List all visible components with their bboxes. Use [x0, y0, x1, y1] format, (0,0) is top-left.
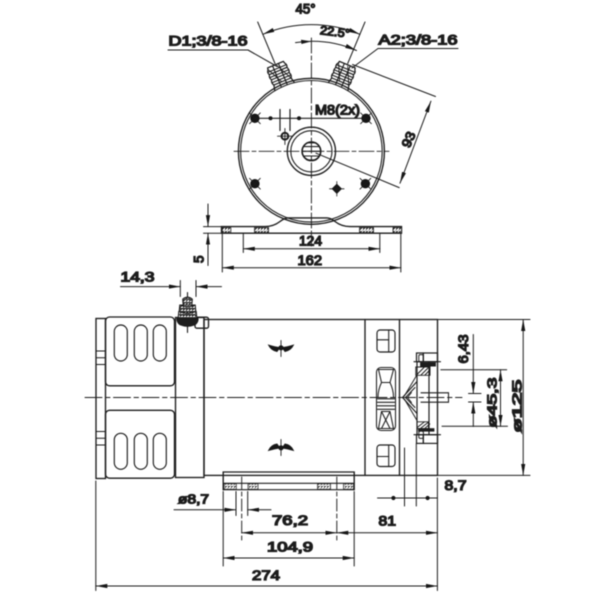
- svg-text:162: 162: [298, 253, 323, 268]
- svg-text:ø45,3: ø45,3: [485, 378, 500, 428]
- svg-text:81: 81: [379, 514, 397, 529]
- svg-text:93: 93: [398, 129, 418, 150]
- svg-text:6,43: 6,43: [456, 335, 471, 364]
- svg-text:274: 274: [252, 568, 280, 583]
- svg-text:5: 5: [192, 255, 207, 263]
- svg-text:ø8,7: ø8,7: [178, 492, 209, 507]
- svg-text:124: 124: [299, 234, 322, 249]
- svg-text:8,7: 8,7: [445, 478, 467, 493]
- svg-text:D1;3/8-16: D1;3/8-16: [169, 34, 248, 49]
- svg-text:M8(2x): M8(2x): [315, 103, 360, 118]
- svg-text:22.5°: 22.5°: [319, 23, 351, 41]
- svg-text:104,9: 104,9: [267, 540, 313, 555]
- svg-text:14,3: 14,3: [121, 270, 155, 285]
- svg-text:45°: 45°: [296, 2, 316, 17]
- svg-text:76,2: 76,2: [272, 513, 308, 528]
- svg-text:ø125: ø125: [510, 380, 525, 433]
- svg-text:A2;3/8-16: A2;3/8-16: [379, 33, 458, 48]
